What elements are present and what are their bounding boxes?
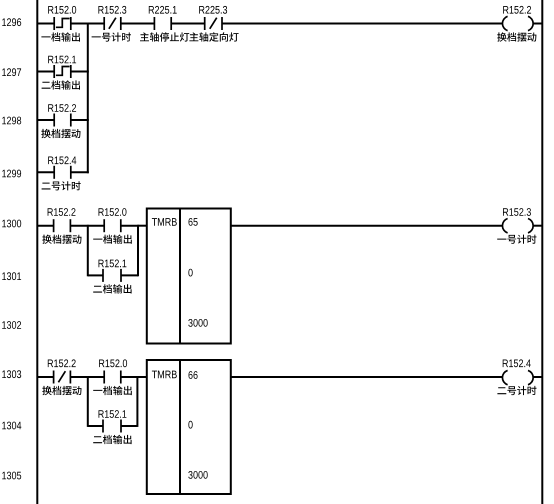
wire — [88, 425, 103, 427]
value 65 — [189, 218, 198, 226]
label R225.3 — [199, 6, 227, 14]
coil R152.4 — [502, 370, 533, 384]
wire — [171, 23, 205, 25]
contact R152.2 normally-open — [54, 114, 71, 127]
wire — [37, 119, 54, 121]
value 0 — [188, 421, 192, 429]
wire — [71, 119, 89, 121]
label 二档输出 — [93, 284, 131, 293]
contact R225.1 normally-open — [154, 17, 171, 30]
label 换档摆动 — [42, 235, 81, 244]
timer TMRB 65 block outline — [147, 209, 231, 344]
label 二档输出 — [42, 80, 80, 89]
contact R152.1 rising-edge — [54, 65, 71, 78]
label 主轴定向灯 — [189, 32, 238, 41]
timer block divider — [179, 360, 181, 494]
rung number 1303 — [2, 370, 21, 378]
label R152.1 — [48, 56, 76, 64]
wire — [88, 274, 103, 276]
value 3000 — [188, 319, 207, 327]
label 换档摆动 — [42, 386, 81, 395]
wire — [71, 171, 89, 173]
contact R152.1 normally-open — [103, 420, 121, 433]
coil R152.3 — [502, 219, 533, 233]
timer block divider — [179, 209, 181, 344]
value 3000 — [188, 471, 207, 479]
label R152.0 — [99, 359, 127, 367]
wire — [121, 425, 137, 427]
rung number 1301 — [2, 272, 21, 280]
label R152.1 — [99, 260, 127, 268]
wire — [71, 23, 88, 25]
coil R152.2 — [502, 16, 533, 30]
rung number 1297 — [2, 68, 21, 76]
contact R152.0 normally-open — [104, 371, 121, 384]
junction bar node — [137, 225, 139, 276]
contact R152.2 normally-closed — [54, 371, 71, 384]
label 一档输出 — [93, 235, 132, 244]
rung number 1298 — [2, 117, 21, 125]
label R152.2 — [48, 208, 76, 216]
timer TMRB 66 block outline — [147, 360, 231, 494]
label 换档摆动 — [41, 129, 80, 138]
rung number 1300 — [2, 220, 21, 228]
wire — [137, 376, 146, 378]
junction bar node — [87, 376, 89, 427]
wire — [121, 225, 138, 227]
wire — [37, 71, 54, 73]
label TMRB — [152, 218, 177, 226]
wire — [88, 225, 104, 227]
left power rail — [36, 0, 38, 504]
wire — [88, 376, 104, 378]
wire — [138, 225, 147, 227]
wire — [71, 71, 89, 73]
label 二档输出 — [93, 435, 131, 444]
contact R152.1 normally-open — [103, 269, 121, 282]
wire — [88, 23, 104, 25]
contact R152.2 normally-open — [54, 219, 71, 232]
wire — [70, 225, 87, 227]
right power rail — [541, 0, 543, 504]
value 0 — [188, 269, 192, 277]
label R152.2 — [48, 104, 76, 112]
contact R152.0 normally-open — [104, 219, 121, 232]
label R152.1 — [99, 410, 127, 418]
label 一号计时 — [92, 32, 131, 41]
wire — [533, 225, 542, 227]
label 二号计时 — [497, 386, 536, 395]
contact R152.3 normally-closed — [104, 17, 121, 30]
wire — [121, 274, 138, 276]
wire — [70, 376, 87, 378]
junction bar node — [87, 23, 89, 174]
wire — [231, 225, 503, 227]
rung number 1304 — [2, 422, 21, 430]
rung number 1299 — [2, 170, 21, 178]
wire — [533, 376, 542, 378]
wire — [533, 23, 542, 25]
contact R152.4 normally-open — [54, 166, 71, 179]
label R152.2 — [503, 6, 531, 14]
label 二号计时 — [42, 181, 81, 190]
wire — [222, 23, 503, 25]
label R152.0 — [99, 208, 127, 216]
label 主轴停止灯 — [140, 32, 189, 41]
wire — [37, 23, 54, 25]
label 一号计时 — [497, 235, 536, 244]
rung number 1302 — [2, 321, 21, 329]
wire — [37, 171, 54, 173]
junction bar node — [136, 376, 138, 427]
label R225.1 — [149, 6, 177, 14]
label R152.3 — [503, 208, 531, 216]
wire — [37, 225, 53, 227]
contact R152.0 rising-edge — [54, 17, 71, 30]
label R152.2 — [48, 359, 76, 367]
wire — [37, 376, 53, 378]
rung number 1305 — [2, 472, 21, 480]
wire — [121, 23, 155, 25]
label R152.4 — [48, 156, 76, 164]
label R152.4 — [503, 359, 531, 367]
rung number 1296 — [2, 18, 21, 26]
junction bar node — [87, 225, 89, 276]
value 66 — [189, 371, 198, 379]
label R152.3 — [98, 6, 126, 14]
label TMRB — [152, 371, 177, 379]
label 一档输出 — [93, 386, 132, 395]
wire — [121, 376, 138, 378]
label 换档摆动 — [497, 32, 536, 41]
label 一档输出 — [41, 32, 80, 41]
wire — [231, 376, 503, 378]
label R152.0 — [48, 6, 76, 14]
contact R225.3 normally-closed — [205, 17, 222, 30]
